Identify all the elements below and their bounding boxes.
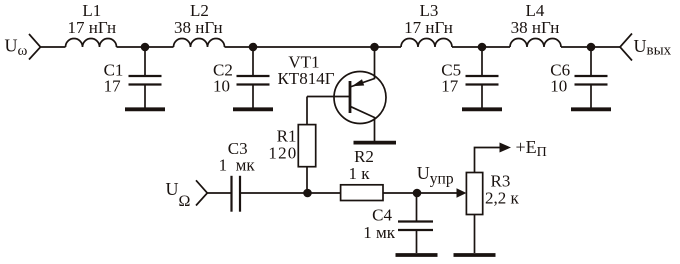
svg-text:2,2 к: 2,2 к (485, 189, 520, 208)
wiper arrow into R3 (457, 188, 467, 198)
svg-text:17: 17 (441, 77, 459, 96)
svg-text:17 нГн: 17 нГн (404, 18, 453, 37)
wire R1 top (306, 97, 308, 125)
inductor L1 (66, 39, 117, 48)
node J3 emitter (370, 43, 379, 52)
capacitor C6 (575, 47, 608, 108)
wire input to C3 (207, 192, 231, 194)
capacitor C5 (466, 47, 499, 108)
ground under C4 (396, 253, 438, 257)
svg-text:1 мк: 1 мк (363, 223, 396, 242)
ground under R3 (454, 253, 496, 257)
node J1 (141, 43, 150, 52)
wire input to L1 (41, 46, 66, 48)
capacitor C2 (237, 47, 270, 108)
transistor VT1 circle (334, 72, 386, 124)
svg-text:120: 120 (268, 144, 297, 163)
node J4 (478, 43, 487, 52)
svg-text:17 нГн: 17 нГн (67, 18, 116, 37)
capacitor C1 (129, 47, 162, 108)
node Uupr (413, 189, 422, 198)
node J2 (249, 43, 258, 52)
transistor VT1 emitter (350, 47, 375, 87)
inductor L2 (174, 39, 225, 48)
wire L1 to L2 (117, 46, 174, 48)
wire R1 bottom (306, 167, 308, 193)
svg-text:10: 10 (550, 77, 567, 96)
resistor R1 (298, 125, 315, 167)
input terminal U_omega (29, 34, 41, 60)
wire L2 to L3 (225, 46, 402, 48)
wire L4 to output (561, 46, 620, 48)
inductor L4 (510, 39, 561, 48)
ground under C6 (571, 107, 611, 111)
wire L3 to L4 (452, 46, 510, 48)
input terminal U_Omega (196, 180, 207, 205)
transistor VT1 base bar (349, 81, 352, 113)
svg-text:38 нГн: 38 нГн (174, 18, 223, 37)
svg-text:КТ814Г: КТ814Г (277, 69, 334, 88)
wire R2 to node Uupr (383, 192, 459, 194)
svg-text:1 к: 1 к (348, 164, 370, 183)
svg-text:Uω: Uω (5, 36, 28, 59)
ground under C2 (233, 107, 273, 111)
capacitor C3 (232, 176, 241, 212)
svg-text:17: 17 (104, 77, 122, 96)
svg-text:+EП: +EП (516, 137, 547, 160)
ground under C1 (125, 107, 165, 111)
capacitor C4 (398, 193, 433, 253)
ground under C5 (462, 107, 502, 111)
wire R3 bottom (474, 215, 476, 254)
resistor R3 (466, 173, 482, 215)
svg-text:Uупр: Uупр (417, 163, 454, 188)
inductor L3 (401, 39, 452, 48)
node J5 (587, 43, 596, 52)
svg-text:10: 10 (213, 77, 230, 96)
output terminal U_vykh (620, 34, 632, 61)
transistor VT1 emitter arrow (352, 79, 364, 86)
node R1 bottom (303, 189, 312, 198)
svg-text:38 нГн: 38 нГн (511, 18, 560, 37)
resistor R2 (341, 185, 383, 201)
transistor VT1 collector (350, 106, 375, 141)
arrow to +E_P (500, 143, 512, 153)
ground under VT1 collector (354, 141, 397, 145)
wire R3 top to supply (475, 148, 503, 173)
svg-text:C4: C4 (372, 206, 392, 225)
svg-text:UΩ: UΩ (166, 179, 191, 210)
svg-text:Uвых: Uвых (634, 36, 672, 59)
wire C3 to node (240, 192, 341, 194)
wire base to R1 top (307, 96, 350, 98)
svg-text:1 мк: 1 мк (219, 156, 256, 175)
